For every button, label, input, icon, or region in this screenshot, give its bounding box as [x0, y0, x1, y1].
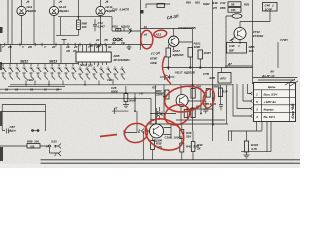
- svg-text:2: 2: [54, 153, 57, 157]
- svg-text:Корпус: Корпус: [264, 108, 275, 112]
- svg-text:АФ8: АФ8: [208, 76, 215, 80]
- svg-text:0,047П: 0,047П: [120, 8, 130, 12]
- svg-text:С104: С104: [165, 136, 172, 140]
- svg-text:А1З: А1З: [155, 32, 162, 36]
- svg-text:ЛЦ300: ЛЦ300: [152, 139, 162, 143]
- svg-text:100П: 100П: [204, 51, 212, 55]
- svg-text:ЛЦ30Н: ЛЦ30Н: [58, 9, 69, 13]
- svg-text:КД102: КД102: [121, 25, 130, 29]
- svg-text:20: 20: [95, 38, 100, 42]
- svg-text:+12В Чм: +12В Чм: [264, 100, 277, 104]
- svg-text:R98: R98: [27, 140, 33, 144]
- svg-text:1К0: 1К0: [249, 49, 254, 53]
- svg-text:0,047: 0,047: [98, 25, 106, 29]
- svg-text:VD2: VD2: [112, 25, 118, 29]
- svg-text:ЛЦ30Н: ЛЦ30Н: [26, 9, 37, 13]
- svg-text:100: 100: [82, 25, 87, 29]
- svg-text:R40: R40: [186, 145, 192, 149]
- svg-text:2В: 2В: [55, 88, 59, 92]
- svg-text:20: 20: [72, 49, 77, 53]
- svg-text:КТ361Е: КТ361Е: [253, 34, 264, 38]
- svg-text:80F: 80F: [229, 49, 234, 53]
- svg-text:56: 56: [231, 2, 235, 6]
- svg-text:С92: С92: [112, 8, 118, 12]
- svg-text:Вх. КЗЧ: Вх. КЗЧ: [264, 115, 276, 119]
- svg-text:R10: R10: [222, 90, 228, 94]
- svg-text:R63: R63: [186, 1, 191, 5]
- svg-text:R85: R85: [214, 85, 220, 89]
- svg-text:0В1: 0В1: [195, 1, 200, 5]
- svg-text:VD17: VD17: [175, 71, 183, 75]
- svg-text:Вых. КЗЧ: Вых. КЗЧ: [264, 93, 279, 97]
- svg-text:20: 20: [111, 41, 116, 45]
- svg-text:Цепь: Цепь: [268, 85, 276, 89]
- svg-text:20: 20: [51, 45, 56, 49]
- svg-text:х6: х6: [143, 33, 148, 37]
- svg-text:SВ13: SВ13: [49, 60, 57, 64]
- svg-text:Д7: Д7: [227, 62, 232, 66]
- svg-text:1Б: 1Б: [15, 88, 18, 92]
- svg-text:0В6: 0В6: [220, 6, 226, 10]
- svg-text:5Л0: 5Л0: [88, 64, 93, 68]
- svg-text:SА11: SА11: [80, 63, 87, 67]
- svg-text:4: 4: [255, 115, 258, 119]
- svg-text:КЦ30: КЦ30: [203, 2, 210, 6]
- svg-text:200В: 200В: [128, 99, 137, 103]
- svg-text:100Е: 100Е: [150, 61, 158, 65]
- svg-text:КР1016ВИ1: КР1016ВИ1: [114, 58, 131, 62]
- svg-text:R51: R51: [244, 3, 250, 7]
- svg-text:1000П: 1000П: [174, 136, 183, 140]
- svg-text:2В: 2В: [4, 88, 8, 92]
- svg-text:0,1м: 0,1м: [10, 129, 17, 133]
- svg-text:У73П: У73П: [280, 38, 288, 42]
- svg-text:10Б: 10Б: [30, 145, 35, 149]
- svg-text:КТ315Б: КТ315Б: [185, 26, 196, 30]
- svg-text:С32: С32: [220, 1, 226, 5]
- svg-text:ХЗ3: ХЗ3: [50, 140, 57, 144]
- svg-text:Дн-8Г-12: Дн-8Г-12: [261, 74, 275, 78]
- svg-text:С48: С48: [229, 44, 235, 48]
- svg-text:4,7К: 4,7К: [250, 147, 258, 151]
- svg-text:КД522Б: КД522Б: [184, 71, 196, 75]
- svg-text:220К: 220К: [155, 93, 164, 97]
- svg-text:SВ12: SВ12: [20, 60, 28, 64]
- svg-text:R46: R46: [212, 1, 218, 5]
- svg-text:КД521В: КД521В: [173, 53, 185, 57]
- svg-text:100: 100: [34, 140, 39, 144]
- svg-text:2П: 2П: [89, 44, 93, 48]
- svg-text:Блок ЧМЗ: Блок ЧМЗ: [291, 104, 295, 119]
- svg-text:92: 92: [108, 45, 112, 49]
- svg-text:КТ8Е: КТ8Е: [150, 57, 158, 61]
- svg-text:8Л: 8Л: [97, 44, 100, 48]
- svg-text:1С4Р: 1С4Р: [265, 8, 273, 12]
- svg-text:АРУ: АРУ: [219, 77, 227, 81]
- svg-text:2В: 2В: [29, 88, 33, 92]
- svg-text:1: 1: [55, 145, 57, 149]
